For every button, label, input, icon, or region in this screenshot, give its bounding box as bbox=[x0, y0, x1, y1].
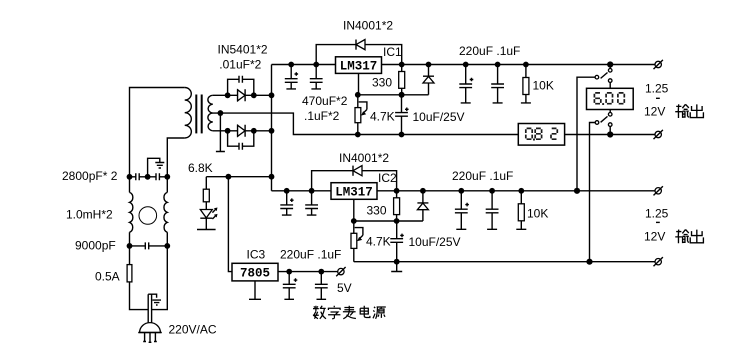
node: .1uF ch1 out junction bbox=[495, 62, 501, 68]
svg-text:.1uF*2: .1uF*2 bbox=[304, 109, 340, 123]
capacitor C7 .1uF (ch1 out) bbox=[491, 65, 504, 103]
capacitor C10 10uF/25V (ch2) bbox=[390, 221, 404, 262]
capacitor C6 220uF (ch1 out) bbox=[459, 65, 473, 103]
meter M2 0.82 digital ammeter bbox=[518, 124, 564, 146]
diode D4 protect adj-out (ch1) bbox=[423, 65, 434, 95]
node: junction 2800pF midpoint bbox=[145, 174, 151, 180]
node: 470uF ch2 junction bbox=[284, 188, 290, 194]
inductor L1 1.0mH common-mode choke left winding bbox=[130, 192, 133, 232]
node: top rectifier bus junction bbox=[269, 92, 275, 98]
node: switch S1a rail junction bbox=[607, 61, 613, 67]
capacitor C14 .1uF (5V) bbox=[315, 272, 328, 300]
ground: 7805 gnd stub bbox=[249, 281, 261, 299]
node: .1uF ch1 junction bbox=[313, 62, 319, 68]
svg-text:4.7K: 4.7K bbox=[370, 109, 395, 123]
node: center tap junction bbox=[218, 110, 224, 116]
node: 10K ch1 junction bbox=[523, 62, 529, 68]
wire: mains right rail (N) bbox=[152, 138, 185, 323]
svg-text:470uF*2: 470uF*2 bbox=[302, 94, 348, 108]
label 数字表电源 bbox=[313, 306, 326, 319]
node: bottom rectifier left junction bbox=[225, 128, 231, 134]
node: 470uF ch1 junction bbox=[288, 62, 294, 68]
svg-text:5V: 5V bbox=[337, 281, 352, 295]
op-amp U1 LM317 regulator IC1 box bbox=[336, 57, 382, 74]
capacitor C13 220uF (5V) bbox=[283, 272, 298, 300]
switch S1a upper meter select bbox=[595, 65, 612, 89]
svg-text:9000pF: 9000pF bbox=[75, 239, 116, 253]
label dash (ch2) bbox=[656, 221, 660, 223]
node: top rectifier left junction bbox=[225, 92, 231, 98]
node: ch2 rail S1a junction bbox=[574, 188, 580, 194]
transformer T1 primary winding bbox=[185, 88, 192, 139]
svg-text:7805: 7805 bbox=[240, 267, 270, 281]
AC plug 220V/AC bbox=[138, 323, 162, 343]
wire: secondary top lead to rectifier bbox=[213, 94, 272, 96]
svg-text:1.25: 1.25 bbox=[645, 207, 669, 221]
wire: ch1 adj rail bbox=[358, 94, 429, 96]
wire: ch2 adj rail bbox=[354, 220, 423, 222]
svg-text:10K: 10K bbox=[533, 79, 554, 93]
wire: center tap line bbox=[213, 113, 519, 134]
svg-text:IC3: IC3 bbox=[247, 248, 266, 262]
node: .1uF 5V junction bbox=[318, 269, 324, 275]
node: junction 9000pF left bbox=[127, 243, 133, 249]
capacitor C5 10uF/25V (ch1) bbox=[395, 95, 409, 135]
svg-text:330: 330 bbox=[367, 203, 387, 217]
resistor R2 10K (ch1) bbox=[521, 65, 531, 103]
diode D1 IN5401 (top) bbox=[238, 89, 246, 101]
node: 220uF ch1 junction bbox=[463, 62, 469, 68]
svg-text:IN5401*2: IN5401*2 bbox=[218, 42, 268, 56]
terminal: ch1 - output bbox=[654, 130, 663, 139]
node: 10uF top junction bbox=[399, 92, 405, 98]
resistor R1 330 (ch1) bbox=[399, 65, 405, 95]
potentiometer VR2 4.7K (ch2) bbox=[351, 221, 363, 262]
svg-text:0.5A: 0.5A bbox=[95, 270, 120, 284]
wire: S1b to ch2 return rail bbox=[590, 123, 596, 262]
node: adj rail 330 junction bbox=[399, 92, 405, 98]
wire: secondary bottom lead to rectifier bbox=[213, 130, 272, 132]
label 输出 (ch2) bbox=[675, 230, 689, 244]
diode D2 IN5401 (bottom) bbox=[238, 125, 246, 137]
resistor R5 6.8K bbox=[203, 177, 209, 210]
node: D4 top junction bbox=[426, 62, 432, 68]
capacitor C1 .01uF snubber (top) bbox=[228, 76, 254, 96]
switch S1b lower meter select bbox=[595, 110, 612, 135]
node: .1uF ch2 junction bbox=[309, 188, 315, 194]
capacitor C4 .1uF (ch1) bbox=[310, 65, 323, 89]
transformer T1 secondary winding lower bbox=[208, 113, 213, 131]
capacitor C12 .1uF (ch2 out) bbox=[486, 191, 499, 230]
svg-text:IN4001*2: IN4001*2 bbox=[339, 151, 389, 165]
svg-text:1.25: 1.25 bbox=[645, 82, 669, 96]
ground: ch2 return stub bbox=[391, 262, 402, 272]
capacitor C8 470uF (ch2) bbox=[280, 191, 293, 215]
node: junction 2800pF right rail bbox=[164, 174, 170, 180]
node: ch2 adj rail pot junction bbox=[351, 218, 357, 224]
svg-text:IC1: IC1 bbox=[383, 45, 402, 59]
wire: LED/7805 feed line bbox=[206, 176, 271, 178]
node: top rectifier right junction bbox=[251, 92, 257, 98]
capacitor C2 .01uF snubber (bottom) bbox=[228, 131, 254, 150]
terminal: ch2 + output bbox=[654, 186, 663, 195]
svg-text:220uF .1uF: 220uF .1uF bbox=[280, 248, 341, 262]
wire: ch1 input rail bbox=[272, 64, 336, 66]
resistor R4 10K (ch2) bbox=[516, 191, 526, 230]
node: bottom rectifier right junction bbox=[251, 128, 257, 134]
fuse F1 0.5A bbox=[127, 265, 132, 282]
node: ch2 10uF bottom junction bbox=[394, 259, 400, 265]
node: ch2 return S1b junction bbox=[586, 259, 592, 265]
choke core circle bbox=[139, 207, 157, 225]
svg-text:10K: 10K bbox=[527, 207, 548, 221]
wire: mains left rail (L) bbox=[130, 88, 185, 324]
svg-text:2800pF* 2: 2800pF* 2 bbox=[62, 169, 118, 183]
capacitor 2800pF (right) bbox=[148, 173, 168, 180]
wire: ch1 output rail bbox=[382, 64, 656, 66]
op-amp U2 LM317 regulator IC2 box bbox=[331, 183, 377, 200]
node: adj rail pot junction bbox=[355, 92, 361, 98]
capacitor 9000pF bbox=[130, 242, 168, 249]
wire: ch2 output rail bbox=[377, 190, 655, 192]
node: junction 9000pF right bbox=[164, 243, 170, 249]
meter M1 6.00 digital voltmeter bbox=[587, 88, 634, 109]
ground: earth above 2800pF caps bbox=[148, 158, 165, 177]
svg-text:4.7K: 4.7K bbox=[366, 235, 391, 249]
LED indicator bbox=[197, 208, 218, 230]
node: junction 2800pF left rail bbox=[127, 174, 133, 180]
label 输出 (ch1) bbox=[675, 104, 689, 118]
node: .1uF ch2 out junction bbox=[489, 188, 495, 194]
capacitor C11 220uF (ch2 out) bbox=[455, 191, 469, 230]
potentiometer VR1 4.7K (ch1) bbox=[355, 95, 367, 135]
svg-text:1.0mH*2: 1.0mH*2 bbox=[66, 208, 113, 222]
transformer T1 secondary winding upper bbox=[208, 95, 213, 113]
node: feed line bus junction bbox=[269, 174, 275, 180]
ground: center tap common stub bbox=[216, 113, 225, 151]
node: D6 top junction bbox=[420, 188, 426, 194]
resistor R3 330 (ch2) bbox=[394, 191, 400, 221]
wire: IC2 adj lead bbox=[353, 199, 355, 221]
wire: S1a to ch2 output rail bbox=[577, 77, 595, 191]
terminal: ch1 + output bbox=[654, 60, 663, 69]
node: 10K ch2 junction bbox=[518, 188, 524, 194]
capacitor C3 470uF (ch1) bbox=[285, 65, 298, 89]
node: ch2 adj rail 330 junction bbox=[394, 218, 400, 224]
node: IC2 output junction bbox=[394, 188, 400, 194]
transformer T1 core bbox=[195, 95, 202, 134]
svg-text:6.8K: 6.8K bbox=[188, 161, 213, 175]
diode D5 IN4001 (across IC2) bbox=[312, 166, 397, 191]
svg-text:220uF .1uF: 220uF .1uF bbox=[459, 44, 520, 58]
svg-text:10uF/25V: 10uF/25V bbox=[413, 110, 465, 124]
diode D3 IN4001 (across IC1) bbox=[316, 40, 402, 65]
svg-text:LM317: LM317 bbox=[335, 185, 373, 199]
terminal: 5V output bbox=[336, 267, 345, 276]
wire: ch2 return rail bbox=[354, 261, 655, 263]
node: 220uF 5V junction bbox=[286, 269, 292, 275]
wire: IC1 adj lead bbox=[358, 73, 360, 94]
wire: ch2 input rail bbox=[272, 190, 332, 192]
node: feed line 7805 tap junction bbox=[226, 174, 232, 180]
node: 10uF bottom junction bbox=[399, 132, 405, 138]
op-amp U3 7805 regulator IC3 box bbox=[232, 263, 278, 281]
svg-text:330: 330 bbox=[372, 75, 392, 89]
ground: earth at plug bbox=[148, 294, 161, 305]
wire: 5V output rail bbox=[278, 271, 338, 273]
svg-text:220V/AC: 220V/AC bbox=[169, 323, 217, 337]
capacitor 2800pF (left) bbox=[130, 173, 148, 180]
node: 220uF ch2 junction bbox=[458, 188, 464, 194]
svg-text:10uF/25V: 10uF/25V bbox=[409, 235, 461, 249]
terminal: ch2 - output bbox=[654, 257, 663, 266]
node: bottom rectifier bus junction bbox=[269, 128, 275, 134]
svg-text:12V: 12V bbox=[644, 104, 665, 118]
svg-text:LM317: LM317 bbox=[340, 60, 378, 74]
wire: 7805 input drop bbox=[228, 177, 232, 272]
wire: DC bus vertical bbox=[271, 65, 273, 191]
diode D6 protect adj-out (ch2) bbox=[417, 191, 428, 221]
wire: ch1 return rail right of meter bbox=[565, 134, 655, 136]
node: IC1 output junction bbox=[399, 62, 405, 68]
svg-text:IC2: IC2 bbox=[378, 171, 397, 185]
svg-text:IN4001*2: IN4001*2 bbox=[343, 19, 393, 33]
svg-text:12V: 12V bbox=[644, 229, 665, 243]
capacitor C9 .1uF (ch2) bbox=[305, 191, 318, 215]
node: switch S1b rail junction bbox=[607, 131, 613, 137]
svg-text:220uF .1uF: 220uF .1uF bbox=[452, 169, 513, 183]
inductor L1 1.0mH common-mode choke right winding bbox=[164, 192, 167, 232]
svg-text:.01uF*2: .01uF*2 bbox=[219, 57, 261, 71]
label dash (ch1) bbox=[656, 97, 660, 99]
node: pot bottom junction bbox=[355, 132, 361, 138]
